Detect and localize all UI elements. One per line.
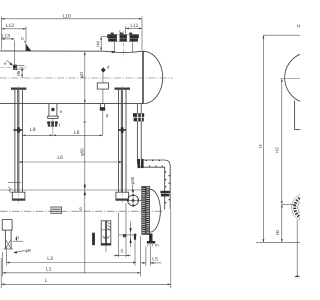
end view lower bolt circle (dark ring) [294, 275, 300, 277]
svg-text:S: S [120, 249, 123, 254]
flange pair on vertical pipe [160, 191, 169, 197]
small vertical dimension near chamber [129, 222, 131, 247]
svg-text:L12: L12 [6, 23, 15, 29]
svg-text:φR: φR [25, 248, 31, 253]
nozzle a [1, 65, 28, 70]
elliptical head [143, 51, 163, 103]
end view centerline [281, 78, 301, 80]
svg-text:50: 50 [79, 207, 83, 211]
nozzle f flange (dark) [47, 118, 58, 135]
dimension L1 [2, 236, 140, 277]
tiny box n and bar [119, 234, 138, 240]
end view circle (vessel) [285, 52, 320, 103]
foundation / chamber centerline (dash-dot) [0, 210, 162, 212]
dimension L6 [53, 130, 103, 136]
svg-text:L6: L6 [57, 155, 63, 161]
dimension S [114, 203, 131, 257]
svg-text:m: m [155, 242, 159, 247]
vessel shell bottom line [0, 103, 143, 105]
dimension L10 [1, 13, 142, 50]
svg-text:L11: L11 [130, 23, 138, 29]
middle anchor bolt detail [101, 221, 111, 253]
tangent line / girth flange [142, 51, 144, 104]
dimension L4 between legs [19, 155, 123, 162]
dimension H4 [95, 36, 107, 50]
svg-text:H4: H4 [95, 41, 100, 47]
lower chamber elliptical head [150, 189, 161, 232]
ground line [0, 189, 142, 191]
lower vertical dimension line with phi50 [79, 104, 86, 274]
bracket b (filled gusset) [26, 43, 32, 51]
nozzle c neck [115, 31, 133, 57]
svg-text:L5: L5 [152, 256, 158, 262]
dimension L11 [126, 23, 142, 34]
dimension H1 [275, 204, 296, 242]
pipe flange pair below nozzle (dark) [133, 113, 144, 121]
vessel centerline [0, 77, 173, 79]
nameplate box on foundation [51, 207, 62, 213]
svg-text:H2: H2 [274, 147, 279, 153]
nameplate on bracket [97, 73, 108, 104]
left anchor bolt detail [2, 220, 13, 249]
flange pair on horizontal pipe [138, 159, 144, 168]
dimension L13 [1, 33, 14, 39]
leader arrow from L13 to nozzle a [13, 41, 17, 70]
svg-text:L3: L3 [47, 256, 53, 262]
dimension L9 [22, 127, 53, 135]
dimension H5 [16, 68, 22, 78]
vessel shell top line [0, 51, 143, 53]
svg-text:φ50: φ50 [130, 176, 135, 184]
dark bar left of middle anchor [92, 233, 95, 246]
flange circle end-on [126, 194, 142, 208]
ticks on horizontal pipe [146, 160, 171, 204]
right leg anchor cross [118, 127, 126, 133]
left leg anchor cross [14, 127, 23, 133]
nozzle g [100, 104, 105, 136]
dimension t [13, 235, 23, 241]
svg-text:L1: L1 [46, 267, 52, 273]
dimension L12 [1, 23, 26, 43]
svg-text:H: H [297, 24, 300, 29]
phi50 label with leader to circle [130, 176, 135, 193]
svg-text:L9: L9 [30, 127, 36, 133]
dimension H [256, 35, 300, 242]
svg-text:φD: φD [79, 72, 84, 78]
right support leg [115, 86, 131, 203]
svg-text:φ50: φ50 [80, 148, 85, 156]
svg-text:H1: H1 [275, 229, 280, 235]
dimension L [1, 210, 171, 288]
nozzle c flange (dark) [107, 33, 139, 42]
end view nozzle flange (dark ring) [292, 193, 320, 222]
nozzle d (diamond fitting) [101, 67, 106, 72]
lower chamber flange strip [142, 186, 150, 234]
svg-text:L8: L8 [74, 130, 80, 136]
small weld arrow on shell top [111, 51, 116, 54]
left support leg [8, 86, 26, 203]
label a [4, 60, 13, 65]
end view saddle [295, 101, 300, 130]
anchor m below chamber [147, 234, 155, 247]
nozzle e [48, 104, 58, 119]
svg-text:L13: L13 [2, 33, 11, 39]
svg-text:H: H [258, 145, 263, 148]
dimension phiD [79, 52, 85, 104]
bottom nozzle to piping [137, 104, 141, 114]
dimension H2 [274, 79, 282, 205]
connecting line between end view flanges [296, 220, 298, 276]
dimension L5 [141, 247, 162, 266]
svg-text:H5: H5 [16, 70, 21, 76]
dimension L3 [7, 240, 136, 266]
svg-text:L: L [45, 278, 48, 284]
svg-text:L10: L10 [63, 13, 72, 19]
down pipe and elbows [137, 121, 170, 209]
label phiR with leader [13, 248, 31, 254]
